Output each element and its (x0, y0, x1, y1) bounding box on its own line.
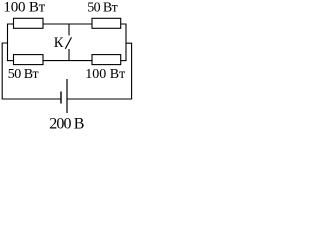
wire R4 to right inner bus (121, 60, 127, 62)
resistor R3 (bottom-left, 50 Вт) (14, 55, 44, 65)
svg-text:50 Вт: 50 Вт (8, 67, 39, 82)
switch K lower contact (68, 49, 70, 61)
svg-text:К: К (54, 35, 64, 51)
wire R2 to right inner bus (121, 24, 127, 61)
wire R3 to R4 (bottom branch middle) (43, 60, 92, 62)
resistor R4 (bottom-right, 100 Вт) (92, 55, 121, 65)
svg-text:100 Вт: 100 Вт (85, 67, 125, 82)
wire battery left (bottom) (2, 98, 61, 100)
resistor R1 (top-left, 100 Вт) (14, 18, 44, 28)
switch K blade (65, 37, 71, 48)
svg-text:50 Вт: 50 Вт (87, 1, 117, 16)
battery short plate (negative) (60, 92, 62, 104)
wire left inner bus to R3 (7, 60, 14, 62)
wire right jog to outer bus (126, 43, 132, 99)
battery long plate (positive) (66, 79, 68, 113)
svg-text:200 В: 200 В (49, 116, 83, 133)
wire battery right (bottom) (67, 98, 132, 100)
wire left jog to outer bus (2, 43, 7, 99)
switch K upper stub (68, 24, 70, 36)
resistor R2 (top-right, 50 Вт) (92, 18, 121, 28)
wire R1 to R2 (top branch middle) (43, 23, 92, 25)
svg-text:100 Вт: 100 Вт (3, 0, 45, 16)
wire top-left corner to R1 (8, 24, 14, 61)
